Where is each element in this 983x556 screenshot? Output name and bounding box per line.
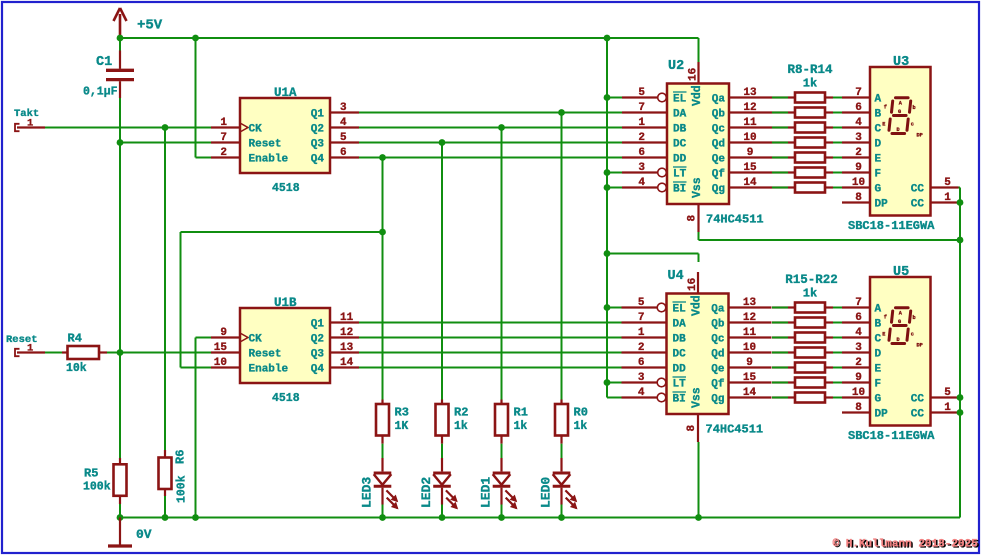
svg-text:6: 6 (340, 147, 347, 159)
svg-text:CC: CC (911, 394, 925, 406)
junction Vss U2 rail (957, 237, 964, 244)
svg-text:10: 10 (743, 342, 756, 354)
connector Reset pin 1 (6, 334, 45, 356)
resistor R0 1k (555, 400, 588, 444)
svg-text:R8-R14: R8-R14 (787, 63, 833, 77)
svg-text:8: 8 (855, 192, 862, 204)
svg-text:DA: DA (673, 319, 687, 331)
wire reset node down to R5 (119, 143, 121, 353)
svg-text:1K: 1K (395, 420, 409, 433)
resistor R1 1k (495, 400, 528, 444)
wire U1B outputs to U4 (359, 323, 622, 368)
capacitor C1 0,1uF (83, 38, 134, 99)
svg-text:F: F (875, 169, 882, 181)
wire EL U2 stub (607, 97, 623, 99)
svg-text:D: D (897, 127, 900, 133)
wire Q3 tap down to R2 (441, 143, 443, 400)
svg-text:Qc: Qc (711, 334, 724, 346)
svg-text:14: 14 (743, 387, 757, 399)
svg-text:6: 6 (855, 102, 862, 114)
svg-text:8: 8 (686, 425, 698, 432)
svg-text:U5: U5 (893, 265, 909, 280)
junction CC1 U5 (957, 409, 964, 416)
svg-text:DB: DB (673, 124, 687, 136)
svg-text:Q1: Q1 (311, 109, 325, 121)
svg-text:5: 5 (944, 387, 951, 399)
svg-text:6: 6 (638, 147, 645, 159)
wire C1 to reset node (119, 98, 121, 143)
svg-text:2: 2 (638, 132, 645, 144)
LED LED2 (419, 444, 458, 518)
svg-text:16: 16 (687, 278, 699, 291)
svg-text:f: f (884, 105, 887, 111)
junction reset net / R5 (117, 349, 124, 356)
svg-text:0,1µF: 0,1µF (83, 86, 118, 99)
svg-text:Vdd: Vdd (691, 295, 704, 316)
svg-text:5: 5 (638, 87, 645, 99)
wire Vss U2 to right rail (699, 232, 961, 240)
svg-text:Q2: Q2 (311, 124, 324, 136)
connector Takt pin 1 (14, 108, 45, 131)
junction EL U4 (604, 304, 611, 311)
svg-text:74HC4511: 74HC4511 (706, 423, 764, 437)
junction Q3 tap to R2 (439, 139, 446, 146)
svg-text:Q4: Q4 (311, 364, 325, 376)
svg-text:R4: R4 (68, 332, 82, 346)
svg-text:11: 11 (743, 327, 757, 339)
junction LED3/ground (379, 514, 386, 521)
svg-text:U4: U4 (668, 269, 684, 284)
wire Vss U4 to ground bus (698, 442, 700, 518)
svg-text:5: 5 (638, 297, 645, 309)
svg-text:R5: R5 (84, 467, 98, 481)
svg-text:4: 4 (855, 117, 862, 129)
svg-text:Q1: Q1 (311, 319, 325, 331)
wire R4 to reset net (107, 352, 211, 354)
wire segments R15-R22 to U5 (833, 308, 842, 398)
junction Takt/R6 (162, 124, 169, 131)
junction CC1 U3 (957, 199, 964, 206)
svg-text:1k: 1k (803, 287, 817, 301)
svg-text:b: b (913, 105, 916, 111)
svg-text:Reset: Reset (249, 139, 282, 151)
svg-text:3: 3 (638, 162, 645, 174)
svg-text:3: 3 (340, 102, 347, 114)
svg-text:E: E (875, 154, 882, 166)
svg-text:6: 6 (638, 357, 645, 369)
wire EL U4 stub (607, 307, 622, 309)
svg-text:1: 1 (944, 402, 951, 414)
svg-text:4: 4 (855, 327, 862, 339)
power +5V symbol (114, 8, 163, 38)
svg-text:B: B (875, 319, 882, 331)
svg-text:LED2: LED2 (419, 477, 434, 508)
svg-text:7: 7 (638, 312, 645, 324)
svg-text:CK: CK (249, 334, 263, 346)
IC U1B 4518 counter (211, 296, 359, 405)
junction LED0/ground (558, 514, 565, 521)
resistor R2 1k (436, 400, 469, 444)
junction R5/ground (117, 514, 124, 521)
svg-text:16: 16 (688, 68, 700, 81)
svg-text:Vdd: Vdd (691, 85, 704, 106)
svg-text:U1A: U1A (274, 86, 297, 100)
wire LT U2 stub (607, 172, 623, 174)
svg-text:Vss: Vss (691, 387, 704, 408)
svg-text:1: 1 (638, 117, 645, 129)
svg-text:9: 9 (220, 327, 227, 339)
svg-text:SBC18-11EGWA: SBC18-11EGWA (848, 219, 935, 233)
svg-text:3: 3 (638, 372, 645, 384)
svg-text:LED3: LED3 (360, 477, 375, 508)
wire down to R5 (119, 353, 121, 459)
wire Reset to R4 (45, 352, 67, 354)
svg-text:13: 13 (340, 342, 354, 354)
junction BI U2 (604, 184, 611, 191)
junction Vdd U4 branch (604, 250, 611, 257)
junction +5V/C1 (117, 35, 124, 42)
svg-text:10: 10 (852, 177, 865, 189)
svg-text:Qb: Qb (711, 319, 725, 331)
svg-text:EL: EL (673, 94, 687, 106)
svg-text:BI: BI (673, 184, 686, 196)
IC U4 74HC4511 decoder (622, 269, 772, 442)
resistor R4 10k (62, 332, 107, 376)
svg-text:13: 13 (743, 297, 757, 309)
svg-text:1k: 1k (454, 420, 468, 433)
svg-text:Q3: Q3 (311, 349, 325, 361)
resistor R5 100k (83, 458, 127, 504)
LED LED1 (479, 444, 518, 518)
svg-text:13: 13 (743, 87, 757, 99)
junction LED1/ground (498, 514, 505, 521)
svg-text:1: 1 (220, 117, 227, 129)
svg-text:+5V: +5V (137, 18, 163, 34)
svg-text:74HC4511: 74HC4511 (706, 213, 764, 227)
junction +5V rail x=195.5 (192, 35, 199, 42)
svg-text:Qa: Qa (712, 94, 726, 106)
wire Vdd U2 from +5V rail (698, 38, 700, 62)
svg-text:© H.Kullmann 2018-2025: © H.Kullmann 2018-2025 (833, 539, 979, 551)
svg-text:10k: 10k (66, 362, 87, 375)
wire U1A enable from +5V (196, 38, 212, 158)
svg-text:U2: U2 (668, 59, 684, 74)
svg-text:BI: BI (673, 394, 686, 406)
svg-text:C: C (875, 124, 882, 136)
svg-text:12: 12 (743, 312, 756, 324)
svg-text:Qe: Qe (712, 154, 726, 166)
junction +5V rail x=607 (604, 35, 611, 42)
wire segments U4 to R15-R22 (772, 308, 788, 398)
svg-text:c: c (911, 332, 914, 338)
svg-text:DP: DP (917, 342, 923, 348)
svg-text:Qf: Qf (711, 379, 725, 391)
svg-text:Q4: Q4 (311, 154, 325, 166)
svg-text:8: 8 (687, 215, 699, 222)
svg-text:E: E (882, 121, 885, 127)
svg-text:3: 3 (855, 342, 862, 354)
svg-text:D: D (875, 139, 882, 151)
display U3 SBC18-11EGWA (842, 55, 959, 233)
wire Takt to U1A CK (45, 127, 211, 129)
junction LED2/ground (439, 514, 446, 521)
junction U1A reset node (117, 139, 124, 146)
LED LED0 (539, 444, 578, 518)
resistor R6 100k (159, 450, 189, 503)
svg-text:E: E (882, 331, 885, 337)
wire U1A reset (120, 142, 211, 144)
svg-text:4518: 4518 (272, 392, 300, 405)
svg-text:DD: DD (673, 364, 687, 376)
svg-text:2: 2 (855, 357, 862, 369)
svg-text:10: 10 (214, 357, 227, 369)
junction Q4 tap (379, 154, 386, 161)
svg-text:Qd: Qd (711, 349, 724, 361)
svg-text:0V: 0V (136, 527, 152, 542)
svg-text:CK: CK (249, 124, 263, 136)
junction EL U2 (604, 94, 611, 101)
svg-text:b: b (913, 315, 916, 321)
svg-text:100k: 100k (176, 475, 189, 503)
junction LT U4 (604, 379, 611, 386)
svg-text:9: 9 (855, 162, 862, 174)
svg-text:DD: DD (673, 154, 687, 166)
svg-text:12: 12 (743, 102, 756, 114)
svg-text:Qg: Qg (712, 184, 725, 196)
wire Q2 tap down to R1 (501, 128, 503, 400)
svg-text:U3: U3 (893, 55, 909, 70)
wire Q3 U1A to DC U2 (359, 142, 622, 144)
wire U5 CC stubs (959, 398, 961, 413)
svg-text:f: f (884, 315, 887, 321)
wire Q2 U1A to DB U2 (359, 127, 622, 129)
svg-text:E: E (875, 364, 882, 376)
svg-text:Qe: Qe (711, 364, 725, 376)
svg-text:15: 15 (743, 372, 757, 384)
svg-text:7: 7 (855, 87, 862, 99)
svg-text:Reset: Reset (249, 349, 282, 361)
svg-text:LED1: LED1 (479, 477, 494, 508)
svg-text:5: 5 (340, 132, 347, 144)
wire Q4 tap down to R3 and U1B clock route (382, 158, 384, 400)
svg-text:4: 4 (638, 387, 645, 399)
wire Vdd U4 branch (607, 254, 699, 263)
svg-text:3: 3 (855, 132, 862, 144)
svg-text:11: 11 (340, 312, 354, 324)
wire R6 pulldown (164, 128, 166, 451)
resistor network R8-R14 1k (772, 63, 833, 193)
svg-text:DP: DP (875, 409, 889, 421)
svg-text:4518: 4518 (272, 182, 300, 195)
svg-text:12: 12 (340, 327, 353, 339)
svg-text:DP: DP (875, 199, 889, 211)
wire R6 to ground bus (164, 496, 166, 518)
LED LED3 (360, 444, 399, 518)
wire U1B CK to ground (196, 338, 212, 518)
svg-text:100k: 100k (83, 481, 111, 494)
wire +5V rail (120, 37, 699, 39)
svg-text:R1: R1 (514, 406, 528, 420)
svg-text:D: D (897, 337, 900, 343)
svg-text:LED0: LED0 (539, 477, 554, 508)
svg-text:6: 6 (855, 312, 862, 324)
svg-text:8: 8 (855, 402, 862, 414)
svg-text:10: 10 (743, 132, 756, 144)
wire Q4 U1A to DD U2 (359, 157, 622, 159)
svg-text:4: 4 (340, 117, 347, 129)
resistor R3 1K (376, 400, 409, 444)
svg-text:Qa: Qa (711, 304, 725, 316)
svg-text:14: 14 (340, 357, 354, 369)
svg-text:R6: R6 (174, 450, 188, 464)
svg-text:R2: R2 (454, 406, 468, 420)
svg-text:14: 14 (743, 177, 757, 189)
junction CK U1B/ground (192, 514, 199, 521)
svg-text:B: B (875, 109, 882, 121)
svg-text:G: G (898, 319, 901, 325)
svg-text:Vss: Vss (691, 177, 704, 198)
svg-text:C1: C1 (96, 55, 112, 70)
junction U1B clock branch (379, 229, 386, 236)
resistor network R15-R22 1k (772, 273, 838, 403)
display U5 SBC18-11EGWA (842, 265, 959, 443)
svg-text:1: 1 (638, 327, 645, 339)
svg-text:Qb: Qb (712, 109, 726, 121)
svg-text:LT: LT (673, 169, 687, 181)
svg-text:9: 9 (747, 147, 754, 159)
svg-text:G: G (898, 109, 901, 115)
svg-text:10: 10 (852, 387, 865, 399)
svg-text:A: A (875, 94, 882, 106)
svg-text:LT: LT (673, 379, 687, 391)
svg-text:Qd: Qd (712, 139, 725, 151)
svg-text:9: 9 (746, 357, 753, 369)
ground 0V symbol (108, 518, 152, 547)
wire ground bus 0V (120, 517, 960, 519)
svg-text:c: c (911, 122, 914, 128)
svg-text:1k: 1k (803, 77, 817, 91)
svg-text:EL: EL (673, 304, 687, 316)
svg-text:11: 11 (743, 117, 757, 129)
junction Q2 tap to R1 (498, 124, 505, 131)
wire Q1 tap down to R0 (561, 113, 563, 400)
svg-text:D: D (875, 349, 882, 361)
wire LT U4 stub (607, 382, 622, 384)
junction Vss U4/ground (695, 514, 702, 521)
svg-text:4: 4 (638, 177, 645, 189)
svg-text:1: 1 (27, 343, 33, 355)
svg-text:2: 2 (855, 147, 862, 159)
svg-text:15: 15 (743, 162, 757, 174)
svg-text:Enable: Enable (249, 364, 289, 376)
svg-text:DC: DC (673, 139, 687, 151)
wire segments U2 to R8-R14 (772, 98, 788, 188)
svg-text:1: 1 (944, 192, 951, 204)
svg-text:9: 9 (855, 372, 862, 384)
svg-text:7: 7 (855, 297, 862, 309)
wire U1B enable route (181, 232, 383, 368)
svg-text:CC: CC (911, 184, 925, 196)
wire Q1 U1A to DA U2 (359, 112, 622, 114)
svg-text:R0: R0 (574, 406, 588, 420)
copyright text (833, 539, 980, 552)
svg-text:SBC18-11EGWA: SBC18-11EGWA (848, 429, 935, 443)
svg-text:5: 5 (944, 177, 951, 189)
svg-text:R15-R22: R15-R22 (785, 273, 838, 287)
IC U2 74HC4511 decoder (622, 59, 772, 232)
junction LT U2 (604, 169, 611, 176)
wire segments R8-R14 to U3 (833, 98, 842, 188)
svg-text:15: 15 (214, 342, 228, 354)
svg-text:7: 7 (638, 102, 645, 114)
wire BI U2 stub (607, 187, 623, 189)
svg-text:Q2: Q2 (311, 334, 324, 346)
svg-text:CC: CC (911, 409, 925, 421)
svg-text:C: C (875, 334, 882, 346)
IC U1A 4518 counter (211, 86, 359, 195)
svg-text:Q3: Q3 (311, 139, 325, 151)
svg-text:7: 7 (220, 132, 227, 144)
svg-text:DC: DC (673, 349, 687, 361)
svg-text:DB: DB (673, 334, 687, 346)
wire +5V vertical to decoder enables (607, 38, 622, 398)
svg-text:A: A (875, 304, 882, 316)
svg-text:G: G (875, 394, 882, 406)
svg-text:1: 1 (27, 118, 33, 130)
svg-text:1k: 1k (514, 420, 528, 433)
svg-text:U1B: U1B (274, 296, 297, 310)
wire U3 CC to right rail (959, 188, 961, 518)
svg-text:Qf: Qf (712, 169, 726, 181)
junction Q1 tap to R0 (558, 109, 565, 116)
svg-text:DA: DA (673, 109, 687, 121)
svg-text:2: 2 (638, 342, 645, 354)
junction R6/ground (162, 514, 169, 521)
wire R5 to ground bus (119, 504, 121, 518)
svg-text:DP: DP (917, 132, 923, 138)
svg-text:1k: 1k (574, 420, 588, 433)
svg-text:R3: R3 (395, 406, 409, 420)
svg-text:F: F (875, 379, 882, 391)
svg-text:2: 2 (220, 147, 227, 159)
svg-text:Qg: Qg (711, 394, 724, 406)
svg-text:CC: CC (911, 199, 925, 211)
junction CC5 U5 (957, 394, 964, 401)
svg-text:G: G (875, 184, 882, 196)
svg-text:Enable: Enable (249, 154, 289, 166)
svg-text:Qc: Qc (712, 124, 725, 136)
